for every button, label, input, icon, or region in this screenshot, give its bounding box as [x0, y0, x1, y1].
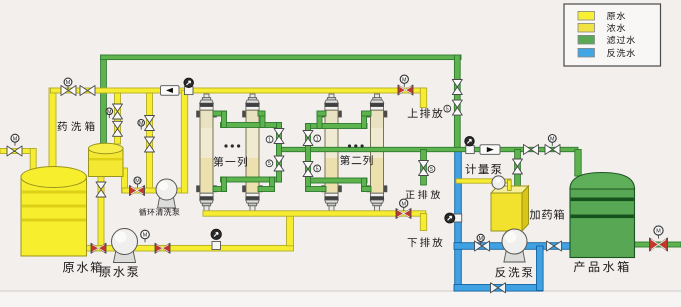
label zheng pai fang (normal drain) — [406, 190, 441, 199]
valve drop B lower — [145, 137, 155, 152]
label di yi lie (first train) — [213, 157, 246, 167]
pipe drop B to cleaning pump (yellow) — [147, 93, 153, 190]
pipe lower drain drop - xia pai fang (yellow) — [420, 214, 426, 231]
pump circulation cleaning - xun huan qing xi beng — [158, 195, 176, 208]
valve product line 1 — [524, 145, 539, 155]
pipe train2 module C top elbow (green) — [317, 111, 322, 128]
pressure gauge on backwash riser — [453, 217, 456, 219]
svg-text:M: M — [401, 201, 406, 207]
label jia yao xiang (dosing tank) — [530, 209, 564, 219]
svg-text:1: 1 — [316, 136, 319, 142]
pipe train1 valve manifold (green) — [277, 123, 282, 183]
valve product tank outlet (red) with actuator M — [650, 238, 668, 251]
flow meter on filtrate header — [480, 145, 500, 155]
legend label backwash water — [607, 49, 635, 57]
valve upper drain (red) with actuator M — [398, 85, 413, 95]
tank raw water - yuan shui xiang — [21, 167, 87, 257]
valve dosing tank feed — [513, 159, 523, 174]
valve train1 bottom with tag 5 — [274, 156, 284, 171]
pipe chemical tank bottom drain (yellow) — [98, 172, 104, 248]
svg-text:M: M — [66, 80, 71, 86]
label xia pai fang (lower drain) — [408, 237, 443, 247]
valve chemical tank drain — [96, 182, 106, 197]
tank product water - chan pin shui xiang — [570, 173, 635, 258]
pipe cleaning pump suction (yellow) — [122, 188, 167, 193]
svg-text:M: M — [550, 137, 555, 143]
membrane module C (train2 left) — [321, 94, 342, 211]
pipe normal-drain drop (green) — [421, 150, 427, 186]
label chan pin shui xiang (product water tank) — [574, 261, 629, 272]
flow meter on main feed header — [161, 86, 180, 96]
svg-text:M: M — [478, 236, 483, 242]
valve backwash bottom loop — [491, 283, 506, 293]
ellipsis dots train2 — [348, 144, 364, 147]
pipe filtrate top return line (green) — [101, 55, 461, 60]
pipe metering pump injection line (yellow) — [456, 179, 497, 183]
pipe train2 lower header (green) — [306, 178, 368, 183]
pump metering - ji liang beng — [492, 176, 511, 191]
pipe backwash main vertical (blue) — [455, 149, 462, 291]
valve lower drain (red) with actuator M — [396, 209, 411, 219]
valve product line 2 with actuator M — [545, 145, 560, 155]
pipe filtrate middle header (green) — [277, 147, 579, 151]
pipe chemical tank side outlet elbow (yellow) — [122, 168, 128, 193]
valve train2 top with tag 1 — [303, 131, 313, 146]
valve backwash suction — [547, 241, 562, 251]
membrane module B (train1 right) — [242, 94, 263, 211]
valve raw pump suction (red) — [91, 243, 106, 253]
valve filtrate riser lower with tag 5 — [452, 100, 462, 115]
label shang pai fang (upper drain) — [408, 108, 443, 118]
label xun huan qing xi beng (circulation cleaning pump) — [139, 208, 180, 215]
valve backwash pump discharge with M — [475, 241, 490, 251]
label yuan shui xiang (raw water tank) — [63, 261, 102, 272]
valve filtrate riser upper — [452, 80, 462, 95]
pipe riser to bottom feed header (yellow) — [287, 211, 294, 246]
pipe main feed top header (yellow) — [51, 88, 426, 93]
legend label concentrate — [607, 24, 625, 32]
pipe raw water inlet (yellow) — [0, 149, 36, 154]
svg-text:M: M — [13, 136, 18, 142]
label ji liang beng (metering pump) — [466, 164, 502, 175]
svg-text:1: 1 — [268, 137, 271, 143]
valve cleaning pump suction (red) with M — [130, 186, 145, 196]
valve train1 top with tag 1 — [274, 129, 284, 144]
tank dosing box - jia yao xiang — [491, 186, 529, 231]
pressure gauge on raw pump line — [212, 242, 221, 250]
membrane module A (train1 left) — [196, 94, 217, 211]
pipe train2 module C bottom elbow (green) — [306, 187, 326, 192]
svg-text:M: M — [656, 229, 661, 235]
pipe filtrate right riser (green) — [454, 55, 460, 150]
pipe bottom feed header (yellow) — [203, 211, 426, 216]
pressure gauge on main header — [185, 87, 194, 95]
pipe product tank outlet (green) — [634, 242, 681, 247]
pipe train1 module A bottom elbow (green) — [213, 187, 227, 192]
pipe backwash bottom loop (blue) — [454, 285, 543, 292]
svg-text:M: M — [139, 121, 144, 127]
pump backwash - fan xi beng — [504, 248, 525, 262]
pipe product tank feed drop (green) — [575, 150, 581, 177]
pipe train1 lower header (green) — [221, 177, 282, 182]
legend label raw water — [607, 12, 625, 20]
valve drop B upper with gauge M — [145, 116, 155, 131]
pipe train2 module D top elbow (green) — [362, 111, 367, 128]
pump raw water - yuan shui beng — [113, 248, 135, 263]
ellipsis dots train1 — [224, 144, 240, 147]
pipe backwash right riser (blue) — [537, 246, 544, 291]
svg-text:M: M — [143, 233, 148, 239]
pipe train1 module B bottom elbow (green) — [270, 177, 275, 191]
label yuan shui beng (raw water pump) — [99, 266, 138, 277]
pipe train2 module D bottom elbow (green) — [362, 178, 367, 191]
svg-text:5: 5 — [446, 107, 449, 113]
valve main header 1 with actuator M — [61, 86, 76, 96]
valve raw pump discharge (red) with M — [155, 243, 170, 253]
svg-text:5: 5 — [430, 167, 433, 173]
valve train2 bottom with tag 5 — [303, 162, 313, 177]
legend label filtrate — [607, 36, 635, 45]
pipe train1 module B top elbow (green) — [260, 111, 265, 127]
pipe train2 upper header (green) — [306, 124, 368, 129]
pipe raw water inlet elbow (yellow) — [30, 149, 36, 173]
pipe train1 upper header (green) — [221, 123, 282, 128]
svg-text:M: M — [402, 77, 407, 83]
valve drop A lower — [113, 121, 123, 136]
svg-text:M: M — [107, 109, 112, 115]
pipe train1 module A top elbow (green) — [213, 111, 227, 116]
valve drop A upper with gauge M — [113, 104, 123, 119]
pipe raw pump line (yellow) — [85, 245, 294, 251]
tank chemical wash - yao xi xiang — [88, 143, 123, 176]
pressure gauge on filtrate header — [466, 146, 475, 154]
pipe train2 valve manifold (green) — [306, 124, 311, 192]
svg-text:M: M — [135, 179, 140, 185]
label fan xi beng (backwash pump) — [495, 267, 532, 278]
pipe raw tank riser (yellow) — [49, 88, 56, 176]
pipe upper drain drop - shang pai fang (yellow) — [420, 88, 426, 108]
pipe cleaning pump discharge riser (yellow) — [167, 188, 187, 193]
pipe filtrate drop to chemical tank (green) — [101, 55, 107, 144]
svg-text:5: 5 — [268, 161, 271, 167]
legend box — [564, 4, 661, 66]
label di er lie (second train) — [340, 155, 372, 165]
pipe dosing tank feed drop (green) — [515, 150, 521, 189]
valve normal drain with tag 5 — [419, 161, 429, 176]
svg-text:5: 5 — [316, 166, 319, 172]
pipe backwash suction line (blue) — [454, 243, 571, 250]
label yao xi xiang (chemical wash tank) — [58, 121, 95, 131]
membrane module D (train2 right) — [367, 94, 388, 211]
valve raw inlet with actuator M — [7, 146, 22, 156]
pipe drop A to chemical tank (yellow) — [115, 93, 121, 144]
valve main header 2 — [80, 86, 95, 96]
